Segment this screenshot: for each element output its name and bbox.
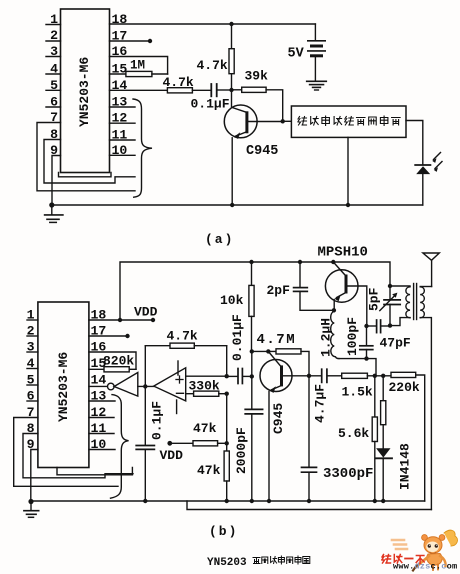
- brace bundling pins 13-10 (b): [111, 395, 129, 499]
- svg-text:47k: 47k: [197, 463, 221, 478]
- U1 pin 12: [112, 111, 128, 126]
- U2 pin 6: [27, 389, 35, 404]
- svg-text:5V: 5V: [288, 47, 305, 62]
- label 1.5k: [342, 385, 373, 400]
- resistor 47k vertical body: [224, 451, 229, 481]
- U1 pin 11: [112, 128, 128, 143]
- Q1 emitter wire with arrow: [236, 132, 248, 137]
- op-amp bottom power stub: [176, 400, 178, 414]
- resistor diode-branch body: [381, 401, 386, 425]
- transistor Q1 C945 (a) circle: [224, 105, 257, 138]
- diode IN4148 triangle: [376, 448, 390, 457]
- capacitor 0.1uF (a) plates: [210, 84, 212, 96]
- inductor 1.2uH coil: [331, 312, 339, 359]
- wire pin15 lead: [89, 368, 104, 370]
- U2 pin 13: [91, 389, 107, 404]
- node dot tank top: [388, 284, 392, 288]
- U2 pin 1: [27, 308, 35, 323]
- node dot VDD/47k column: [225, 441, 229, 445]
- op-amp plus sign: [176, 376, 183, 383]
- label (b): [209, 524, 238, 539]
- node dot 2pF on rail: [298, 260, 302, 264]
- U1 pin 4: [50, 62, 58, 77]
- wire 1.5k right lead: [367, 375, 391, 377]
- svg-text:(b): (b): [209, 524, 238, 539]
- wire pin16 to 1M loop: [110, 57, 168, 75]
- resistor 10k body: [249, 285, 254, 316]
- node dot 5.6k column: [373, 374, 377, 378]
- node dot tank bottom: [388, 323, 392, 327]
- node dot 10k on rail: [249, 260, 253, 264]
- IC U2 YN5203-M6 (circuit b) body: [38, 302, 89, 468]
- resistor 820k body: [104, 367, 129, 372]
- resistor 4.7M body: [276, 349, 301, 354]
- IC U1 YN5203-M6 (circuit a) body: [61, 9, 110, 173]
- Q1 base wire: [248, 121, 282, 123]
- label 0.1uF (a): [191, 97, 230, 112]
- node dot emitter (b) on rail: [267, 499, 271, 503]
- svg-text:3300pF: 3300pF: [323, 466, 373, 482]
- battery 5V plates: [308, 40, 325, 42]
- watermark text weiku yixia (CJK red): [382, 555, 424, 564]
- U2 pin 11: [91, 421, 107, 436]
- wire collector row: [252, 350, 276, 352]
- wire 220k right corner down to rail: [416, 375, 425, 501]
- node dot 3300pF on rail: [307, 499, 311, 503]
- resistor 4.7k (b) body: [170, 343, 194, 348]
- U1 pin 8 wire loop under IC: [44, 140, 135, 184]
- U1 pin 13: [112, 95, 128, 110]
- wire diode to rail: [382, 458, 384, 501]
- capacitor 4.7uF plates: [321, 369, 323, 382]
- wire 100pF to coil node: [366, 350, 368, 359]
- Q3 base wire right and down: [348, 286, 367, 326]
- ground rail circuit (a): [52, 204, 423, 206]
- wire 5.6k to rail: [374, 442, 376, 502]
- svg-text:2pF: 2pF: [267, 283, 291, 298]
- node dot pin18/4.7k: [229, 22, 233, 26]
- wire 0.1uF to rail: [144, 449, 146, 501]
- wire 4.7k to cap: [192, 89, 210, 91]
- U1 pin 16: [112, 44, 128, 59]
- watermark mascot cartoon: [392, 530, 458, 570]
- capacitor 3300pF plates: [302, 466, 317, 468]
- capacitor 100pF plates: [360, 345, 373, 347]
- label 5.6k: [338, 426, 369, 441]
- svg-text:YN5203-M6: YN5203-M6: [77, 57, 92, 127]
- U2 pin 3: [27, 340, 35, 355]
- U2 pin 16: [91, 340, 107, 355]
- wire feedback right vertical: [226, 346, 228, 377]
- staple wire under IC (b): [57, 468, 132, 475]
- resistor 1.5k body: [342, 373, 368, 378]
- wire 47k to column: [218, 442, 227, 444]
- U1 pin 15: [112, 62, 128, 77]
- capacitor 3300pF column: [308, 376, 310, 468]
- svg-text:330k: 330k: [189, 379, 220, 394]
- node dot plus input: [225, 374, 229, 378]
- watermark url www.dzsc.com: [393, 562, 457, 572]
- wire inverter output to opamp node: [138, 385, 154, 387]
- svg-text:10k: 10k: [220, 293, 244, 308]
- battery 5V wire from rail: [314, 24, 316, 40]
- U2 pin 8: [27, 421, 35, 436]
- svg-text:www.dzsc.com: www.dzsc.com: [393, 562, 457, 572]
- wire 47pF row right: [381, 325, 390, 327]
- wire node to box: [283, 120, 292, 122]
- transformer T1 primary winding: [406, 287, 410, 318]
- U2 pin 8 wire loop under IC: [23, 434, 133, 478]
- node dot base/box wire: [281, 119, 285, 123]
- svg-text:5.6k: 5.6k: [338, 426, 369, 441]
- svg-text:C945: C945: [271, 403, 286, 434]
- node dot collector row left: [250, 349, 254, 353]
- Q1 base bar: [245, 111, 248, 133]
- svg-text:YN5203-M6: YN5203-M6: [56, 352, 71, 422]
- capacitor 2000pF plates: [245, 408, 262, 410]
- wire pin15 lead: [110, 73, 126, 75]
- label 3300pF: [323, 466, 373, 482]
- svg-text:39k: 39k: [245, 69, 269, 84]
- resistor R 4.7k horizontal (a) body: [167, 88, 192, 93]
- capacitor 0.1uF (b) column: [144, 386, 146, 445]
- op-amp minus sign: [177, 392, 184, 394]
- label 47k lower: [197, 463, 221, 478]
- wire pin16 to 820k loop: [89, 352, 136, 369]
- Q3 emitter stub to node: [333, 300, 335, 311]
- Q2 base bar: [280, 365, 283, 386]
- U1 pin 6: [50, 95, 58, 110]
- resistor 5.6k column from node: [374, 376, 376, 417]
- transformer T1 secondary bottom wire: [420, 318, 431, 510]
- op-amp U4 triangle: [154, 368, 186, 401]
- capacitor 0.01uF plates: [237, 369, 239, 384]
- node dot pin17 end: [148, 39, 152, 43]
- U1 pin 3: [50, 44, 58, 59]
- node dot collector on rail: [331, 260, 335, 264]
- wire pin18 VDD: [89, 319, 153, 321]
- transistor Q2 C945 (b) circle: [260, 360, 292, 392]
- Q1 emitter down wire: [231, 138, 233, 205]
- svg-text:14: 14: [91, 373, 107, 388]
- wire 330k right lead: [219, 393, 227, 395]
- resistor 1M body: [126, 71, 152, 76]
- wire 2pF to emitter node: [300, 291, 334, 310]
- photodiode LED (a) cathode bar: [415, 164, 430, 166]
- photodiode triangle: [416, 166, 430, 174]
- wire node to 5.6k corner: [367, 359, 377, 376]
- label VDD lower: [160, 448, 184, 463]
- op-amp top power stub: [177, 361, 179, 375]
- wire pin17 stub: [110, 40, 151, 42]
- label C945 (a): [246, 144, 278, 159]
- U1 pin 17: [112, 29, 128, 44]
- label 1M: [130, 59, 145, 73]
- label 4.7M: [257, 332, 297, 348]
- top VDD rail (b): [120, 262, 390, 320]
- inverter U3 bubble: [108, 383, 115, 390]
- antenna symbol: [423, 253, 439, 260]
- wire 47k column to rail: [226, 481, 228, 501]
- capacitor 47pF plates: [376, 320, 378, 333]
- U1 pin 18: [112, 12, 128, 27]
- node dot base column / 47pF row: [364, 324, 368, 328]
- capacitor 2pF column: [299, 262, 301, 287]
- photodiode light arrow 1: [434, 153, 441, 160]
- photodiode bottom wire: [422, 174, 424, 205]
- U2 pin 15: [91, 356, 107, 371]
- svg-text:4.7μF: 4.7μF: [313, 384, 328, 423]
- U1 pin 9 wire to ground: [52, 156, 61, 206]
- wire pin18 to 5V rail: [110, 23, 316, 25]
- svg-text:4.7M: 4.7M: [257, 332, 297, 348]
- label 47pF: [380, 336, 411, 351]
- ground symbol below battery: [307, 80, 327, 82]
- label 820k: [103, 354, 134, 369]
- transformer T1 secondary winding: [420, 287, 424, 318]
- resistor 10k lead from rail: [251, 262, 253, 285]
- svg-text:YN5203: YN5203: [207, 557, 247, 569]
- node dot box bottom on rail: [346, 203, 350, 207]
- Q3 collector wire to rail: [333, 262, 346, 276]
- wire 3300pF to rail: [308, 472, 310, 501]
- U2 pin 10: [91, 437, 107, 452]
- caption CJK: typical application circuit diagram: [253, 556, 310, 564]
- wire battery to ground: [314, 57, 316, 81]
- capacitor 2000pF column: [251, 376, 253, 409]
- wire bias column down: [226, 394, 228, 451]
- svg-text:18: 18: [112, 12, 128, 27]
- U1 pin 7: [50, 110, 58, 125]
- wire 4.7uF to 1.5k: [328, 375, 342, 377]
- node junction dot (a) base node: [229, 88, 233, 92]
- ground symbol (b): [30, 502, 32, 511]
- photodiode light arrow 2: [435, 162, 442, 169]
- trimmer 5pF arrow: [380, 295, 396, 311]
- label 39k: [245, 69, 269, 84]
- Q2 collector wire: [268, 351, 281, 367]
- label 220k: [389, 380, 420, 395]
- label 10k: [220, 293, 244, 308]
- wire coil bottom to 100pF node: [339, 358, 367, 360]
- U2 pin 9: [27, 437, 35, 452]
- wire 4.7M right lead corner down: [301, 351, 309, 375]
- svg-text:100pF: 100pF: [345, 317, 360, 356]
- node dot inverter/opamp/feedback: [143, 384, 147, 388]
- label 4.7k horizontal: [163, 75, 194, 90]
- trimmer 5pF plates: [384, 299, 400, 301]
- node dot ground (a): [49, 202, 54, 207]
- node dot VDD lower: [167, 441, 172, 446]
- node dot pin18/rail: [118, 318, 122, 322]
- U1 pin 8: [50, 127, 58, 142]
- brace bundling pins 13-10 (a): [133, 99, 152, 197]
- node dot diode on rail: [381, 499, 385, 503]
- Q2 base row wire: [283, 375, 321, 377]
- U2 pin 5: [27, 373, 35, 388]
- resistor 5.6k body: [372, 417, 377, 442]
- svg-text:1M: 1M: [130, 59, 145, 73]
- U2 pin 9 wire to ground: [31, 450, 38, 502]
- resistor 4.7k vertical body: [229, 49, 234, 74]
- ground rail circuit (b): [31, 500, 425, 502]
- node dot coil/100pF: [364, 356, 368, 360]
- svg-text:1.2μH: 1.2μH: [319, 318, 334, 357]
- U1 pin 10: [112, 143, 128, 158]
- U1 pin 2: [50, 28, 58, 43]
- capacitor 0.1uF (b) plates: [136, 445, 154, 447]
- wire opamp minus lead: [186, 393, 194, 395]
- svg-text:0.01μF: 0.01μF: [230, 314, 245, 361]
- svg-text:C945: C945: [246, 144, 278, 159]
- wire 39k to box, corner down: [266, 90, 283, 122]
- svg-text:820k: 820k: [103, 354, 134, 369]
- svg-text:5pF: 5pF: [367, 287, 382, 311]
- caption YN5203 typical application circuit: [207, 557, 247, 569]
- label MPSH10: [318, 245, 368, 261]
- transistor Q3 MPSH10 circle: [325, 270, 358, 303]
- resistor 220k body: [391, 372, 416, 377]
- wire opamp plus input: [186, 375, 227, 377]
- node dot diode column: [381, 374, 385, 378]
- wire box bottom to rail: [347, 137, 349, 205]
- node dot 0.01uF column: [250, 374, 254, 378]
- svg-text:VDD: VDD: [160, 448, 184, 463]
- wire pin14 to inverter: [89, 385, 108, 387]
- svg-text:47pF: 47pF: [380, 336, 411, 351]
- resistor 47k horizontal body: [193, 441, 218, 446]
- wire pin14 lead: [110, 89, 168, 91]
- node dot pin17 end: [125, 334, 129, 338]
- Q2 emitter down wire: [268, 392, 270, 502]
- U2 pin 4: [27, 356, 35, 371]
- wire box right to LED: [406, 121, 423, 165]
- Q3 emitter wire with arrow: [337, 293, 346, 298]
- U1 pin 14: [112, 78, 128, 93]
- svg-text:4.7k: 4.7k: [163, 75, 194, 90]
- svg-text:0.1μF: 0.1μF: [150, 401, 165, 440]
- wire pin17 stub: [89, 335, 128, 337]
- resistor 4.7k feedback (b) loop left: [144, 346, 146, 387]
- U2 pin 2: [27, 324, 35, 339]
- Q3 base bar: [345, 275, 348, 294]
- wire 1M right lead: [152, 73, 168, 75]
- svg-text:MPSH10: MPSH10: [318, 245, 368, 261]
- Q1 collector wire: [232, 90, 248, 113]
- node dot 330k column: [225, 392, 229, 396]
- transformer T1 secondary top wire to antenna: [420, 286, 431, 288]
- Q2 emitter wire with arrow: [272, 386, 282, 390]
- transformer T1 primary bottom wire: [390, 318, 410, 326]
- label 5V: [288, 47, 305, 62]
- svg-text:220k: 220k: [389, 380, 420, 395]
- node dot emitter on rail: [230, 203, 234, 207]
- resistor (diode branch) column: [382, 376, 384, 401]
- svg-text:1.5k: 1.5k: [342, 385, 373, 400]
- U2 pin 14: [91, 373, 107, 388]
- U2 pin 7 wire loop under IC: [14, 418, 118, 487]
- wire column to 0.01uF node: [251, 351, 253, 376]
- U2 pin 7: [27, 405, 35, 420]
- wire 10k to collector node: [251, 316, 253, 351]
- resistor R 4.7k vertical (a) leads: [231, 24, 233, 49]
- box IR receiver front-end circuit (a): [291, 106, 406, 137]
- wire 0.01uF to column: [243, 375, 252, 377]
- wire 2000pF to rail: [251, 414, 253, 501]
- node dot base row/3300pF: [307, 374, 311, 378]
- capacitor 100pF column: [366, 326, 368, 346]
- label 2pF: [267, 283, 291, 298]
- ground symbol (a): [51, 205, 53, 214]
- svg-text:4.7k: 4.7k: [197, 58, 228, 73]
- node dot 5.6k on rail: [373, 499, 377, 503]
- node dot 2000pF on rail: [250, 499, 254, 503]
- label 4.7k vertical: [197, 58, 228, 73]
- U1 pin 9: [50, 143, 58, 158]
- wire feedback top left lead: [145, 345, 170, 347]
- staple wire under IC (a): [59, 173, 112, 177]
- wire feedback top right lead: [194, 345, 226, 347]
- antenna mast: [431, 260, 433, 286]
- resistor 39k body: [242, 87, 266, 92]
- diode IN4148 bar: [376, 457, 392, 459]
- capacitor 2pF plates: [294, 287, 308, 289]
- trimmer capacitor 5pF column top: [389, 286, 391, 300]
- svg-text:VDD: VDD: [134, 305, 158, 320]
- label 330k: [189, 379, 220, 394]
- U1 pin 7 wire loop under IC: [37, 123, 135, 191]
- U2 pin 17: [91, 324, 107, 339]
- resistor 330k body: [194, 391, 219, 396]
- wire 47pF row left: [367, 325, 377, 327]
- trimmer 5pF column bottom: [389, 305, 391, 326]
- svg-text:4.7k: 4.7k: [167, 329, 198, 344]
- node dot emitter/2pF/coil: [332, 308, 336, 312]
- box text: infrared receiver front-end circuit (CJK): [298, 116, 400, 126]
- U2 pin 18: [91, 308, 107, 323]
- wire cap to junction: [218, 89, 232, 91]
- svg-text:(a): (a): [205, 232, 234, 247]
- U1 pin 1: [50, 12, 58, 27]
- secondary return rail (b): [187, 501, 431, 510]
- wire plus node to 0.01uF: [227, 375, 238, 377]
- label 47k upper: [193, 421, 217, 436]
- node dot ground (b): [28, 499, 33, 504]
- svg-text:2000pF: 2000pF: [234, 427, 249, 474]
- node dot 0.1uF on rail: [143, 499, 147, 503]
- label VDD top: [134, 305, 158, 320]
- label (a): [205, 232, 234, 247]
- U1 pin 5: [50, 78, 58, 93]
- transformer T1 primary top wire: [390, 285, 410, 287]
- svg-text:47k: 47k: [193, 421, 217, 436]
- transformer T1 core: [413, 284, 415, 320]
- svg-text:0.1μF: 0.1μF: [191, 97, 230, 112]
- svg-text:IN4148: IN4148: [398, 443, 413, 490]
- wire resistor to diode: [382, 425, 384, 449]
- U2 pin 12: [91, 405, 107, 420]
- wire 820k right lead: [129, 368, 136, 370]
- resistor 39k lead: [232, 89, 242, 91]
- inverter U3 triangle: [114, 373, 138, 397]
- label 4.7k (b) teal: [167, 329, 198, 344]
- wire VDD to 47k: [170, 442, 193, 444]
- node dot 47k on rail: [225, 499, 229, 503]
- node dot VDD end: [151, 318, 155, 322]
- node dot collector: [266, 349, 270, 353]
